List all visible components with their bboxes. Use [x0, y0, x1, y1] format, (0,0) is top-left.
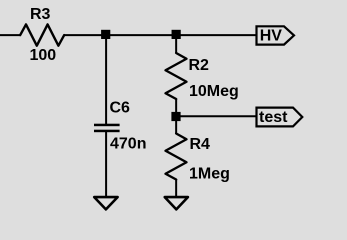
resistor R2 [166, 53, 187, 99]
capacitor C6 top plate [94, 124, 120, 127]
svg-text:100: 100 [30, 47, 57, 64]
wire left lead to R3 [0, 34, 21, 36]
ground under C6 [94, 197, 117, 209]
flag HV [257, 26, 295, 44]
wire R2 to junction C [175, 99, 177, 114]
wire R3 to HV flag [64, 34, 257, 36]
svg-text:470n: 470n [110, 136, 146, 153]
svg-text:R2: R2 [189, 57, 210, 74]
flag test [257, 108, 303, 127]
capacitor C6 bottom plate [94, 130, 120, 133]
node junction A (top of C6) [101, 30, 110, 39]
wire junction C to test flag [180, 115, 257, 117]
wire junction B down to R2 [175, 38, 177, 54]
svg-text:C6: C6 [110, 100, 131, 117]
svg-text:test: test [259, 109, 288, 126]
resistor R3 [20, 24, 64, 45]
svg-text:R3: R3 [30, 6, 51, 23]
svg-text:1Meg: 1Meg [189, 166, 230, 183]
node junction B (top of R2) [172, 30, 181, 39]
node junction C (between R2 and R4) [171, 112, 180, 121]
svg-text:HV: HV [260, 28, 283, 45]
ground under R4 [165, 197, 188, 209]
resistor R4 [166, 134, 187, 180]
wire junction A down to C6 [105, 38, 107, 125]
svg-text:R4: R4 [190, 136, 211, 153]
svg-text:10Meg: 10Meg [189, 83, 239, 100]
wire C6 to ground [105, 132, 107, 197]
wire R4 to ground [175, 179, 177, 197]
wire junction C down to R4 [175, 120, 177, 134]
